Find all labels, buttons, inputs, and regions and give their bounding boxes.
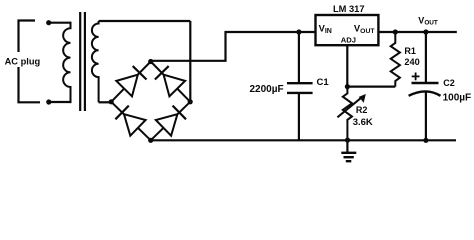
bridge diamond edge top-left (111, 62, 151, 102)
resistor R1 (391, 32, 400, 87)
bridge diamond edge bottom-right (151, 102, 191, 141)
node: R2/ground junction (345, 138, 350, 143)
bridge diode D3 (- node to left AC node) (115, 106, 145, 136)
node: VOUT output junction (423, 29, 428, 34)
svg-text:AC plug: AC plug (5, 56, 41, 66)
capacitor C1 bottom plate (287, 92, 313, 94)
capacitor C1 top plate (287, 82, 313, 84)
node: C2/ground junction (423, 138, 428, 143)
capacitor C2 curved plate (409, 91, 441, 95)
wire: top prong to primary (49, 22, 71, 24)
node: R1 top junction (393, 29, 398, 34)
wire: C1 top lead (298, 32, 300, 83)
wire: VOUT pin to output (378, 31, 456, 33)
transformer core line 2 (84, 12, 86, 111)
bridge diamond edge top-right (151, 62, 191, 102)
wire: C1 bottom lead to ground rail (298, 93, 300, 140)
svg-text:2200µF: 2200µF (250, 84, 284, 95)
wire: AC drop to bridge right node (189, 21, 191, 102)
svg-text:100µF: 100µF (443, 93, 472, 104)
wire: secondary top to AC right drop (99, 20, 191, 22)
svg-text:LM 317: LM 317 (333, 4, 365, 14)
wire: ADJ junction to R1 bottom (347, 85, 395, 87)
regulator U1 LM317 body (316, 15, 379, 45)
svg-text:240: 240 (404, 57, 419, 67)
node: C1 top junction (296, 29, 301, 34)
svg-text:R1: R1 (404, 46, 416, 56)
wire: secondary bottom to bridge left node (99, 101, 112, 103)
wire: bottom prong to primary (49, 101, 71, 103)
node: bridge left AC (109, 99, 114, 104)
bridge diode D2 (right AC node to + node) (155, 66, 185, 96)
wire: C2 bottom lead to ground rail (425, 91, 427, 140)
node: bridge + (top) (148, 59, 153, 64)
svg-text:ADJ: ADJ (341, 35, 356, 44)
bridge diamond edge bottom-left (111, 102, 151, 141)
plug prong dot (bottom) (46, 99, 51, 104)
bridge diode D4 (- node to right AC node) (156, 106, 186, 136)
svg-text:C2: C2 (443, 78, 455, 88)
ground symbol (341, 140, 356, 161)
transformer T1 primary winding (63, 22, 70, 104)
AC plug label (3, 52, 43, 67)
bridge diode D1 (left AC node to + node) (116, 66, 146, 96)
capacitor C2 top plate (412, 82, 439, 84)
node: bridge right AC (188, 99, 193, 104)
resistor R2 (variable) (343, 87, 352, 141)
svg-text:3.6K: 3.6K (353, 117, 373, 128)
node: ADJ junction (345, 84, 350, 89)
transformer core line 1 (79, 12, 81, 111)
AC plug bracket outline (19, 21, 41, 103)
R2 wiper arrow (337, 94, 365, 117)
ground rail wire (151, 139, 456, 141)
C2 plus sign (412, 73, 420, 81)
svg-text:C1: C1 (317, 77, 330, 88)
plug prong dot (top) (46, 20, 51, 25)
wire: ADJ pin down (346, 45, 348, 86)
wire: C2 top lead (425, 32, 427, 83)
svg-text:R2: R2 (356, 105, 368, 115)
transformer T1 secondary winding (92, 21, 99, 102)
wire: bridge + to VIN rail (151, 32, 316, 61)
node: bridge - (bottom) (148, 138, 153, 143)
